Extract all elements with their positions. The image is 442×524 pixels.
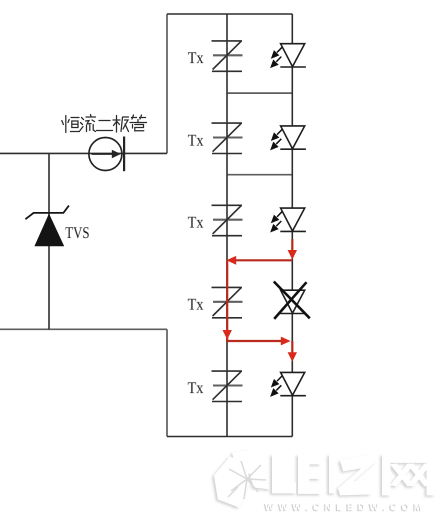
svg-text:Tx: Tx — [188, 378, 204, 397]
svg-text:TVS: TVS — [65, 223, 89, 242]
svg-text:Tx: Tx — [188, 213, 204, 232]
svg-text:Tx: Tx — [188, 295, 204, 314]
svg-text:WWW.CNLEDW.COM: WWW.CNLEDW.COM — [265, 502, 427, 513]
svg-text:Tx: Tx — [188, 130, 204, 149]
svg-text:Tx: Tx — [188, 48, 204, 67]
